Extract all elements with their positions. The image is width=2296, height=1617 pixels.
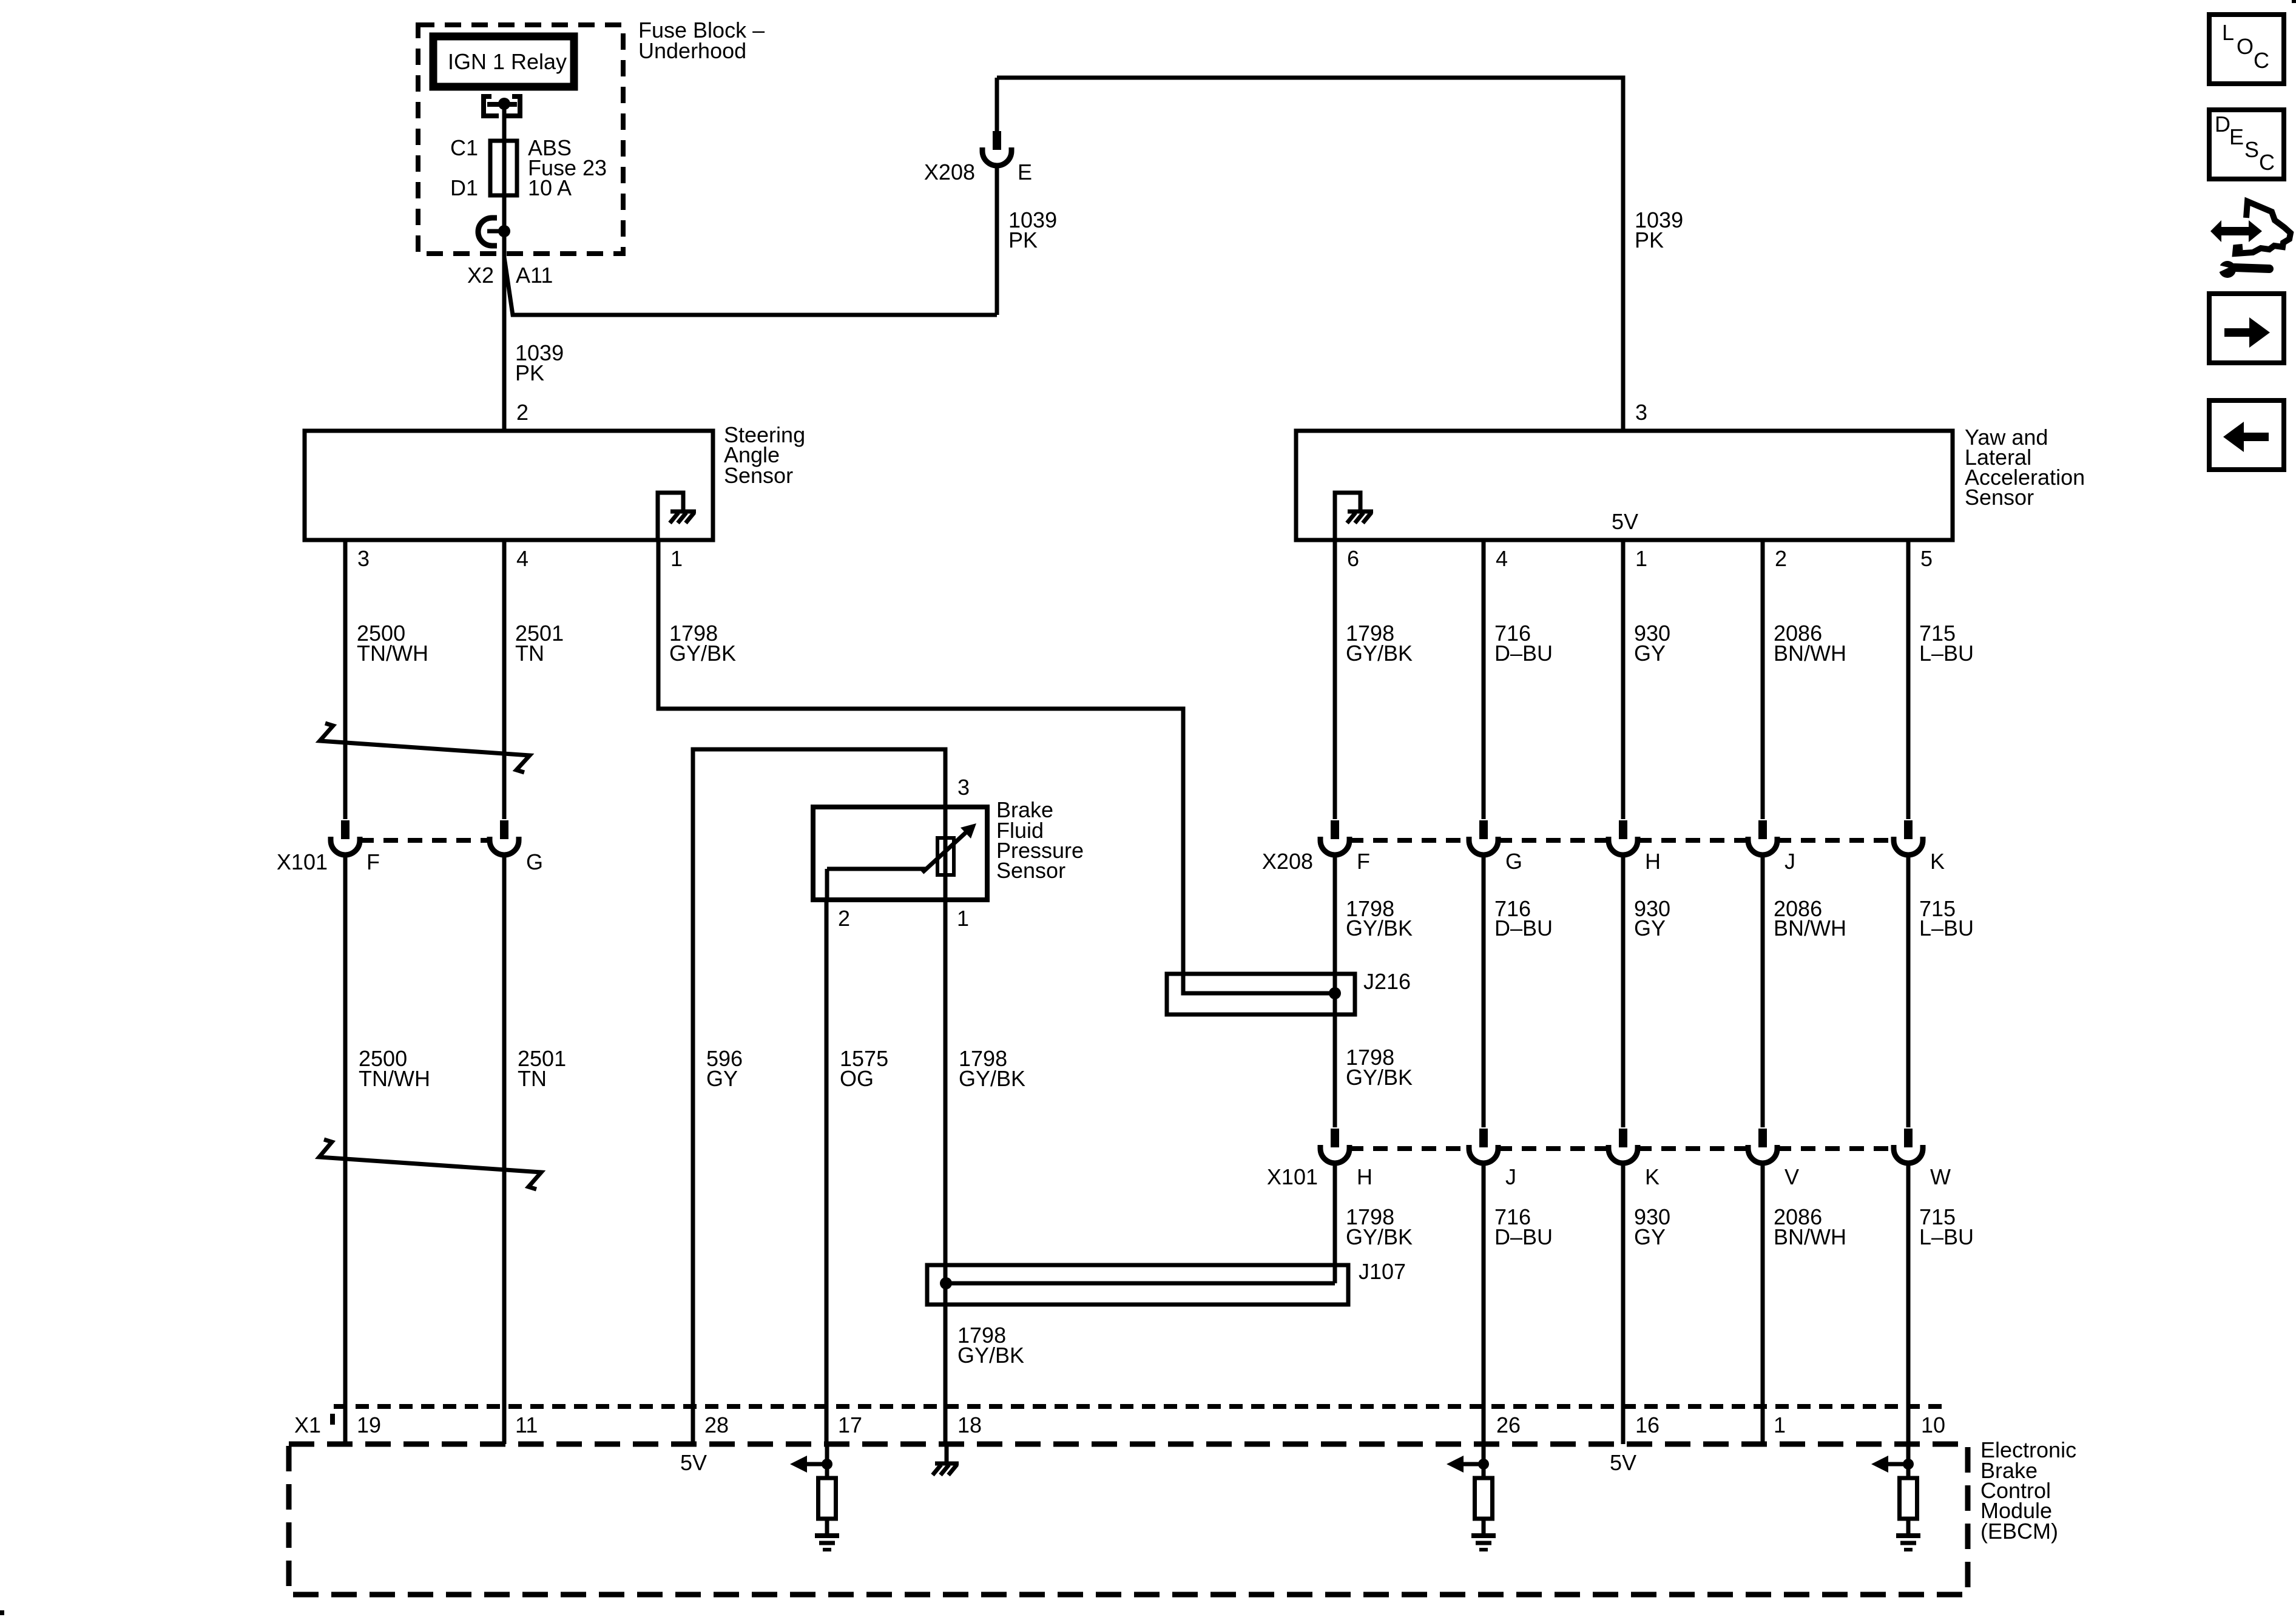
wire 2500 TN/WH steering pin 3 to X101 F <box>343 540 348 819</box>
svg-text:28: 28 <box>704 1413 729 1437</box>
svg-text:X101: X101 <box>277 849 328 874</box>
5V label inside yaw sensor <box>1612 509 1638 534</box>
connector X208 pin E <box>982 78 1011 315</box>
EBCM pin 28 label <box>704 1413 729 1437</box>
svg-text:F: F <box>1357 849 1370 874</box>
svg-text:J107: J107 <box>1359 1259 1406 1284</box>
EBCM pin 17 internal: arrow, pull resistor, ground <box>790 1444 839 1550</box>
break symbol crossing wires 2500/2501 lower <box>319 1139 541 1189</box>
fuse block label <box>638 18 765 63</box>
page mark bottom left <box>0 1610 4 1615</box>
svg-text:GY/BK: GY/BK <box>957 1343 1024 1368</box>
svg-text:5V: 5V <box>1612 509 1638 534</box>
svg-text:H: H <box>1645 849 1661 874</box>
svg-text:5V: 5V <box>1610 1450 1636 1475</box>
EBCM pin 26 label <box>1496 1413 1521 1437</box>
svg-text:GY: GY <box>706 1066 738 1091</box>
svg-text:D–BU: D–BU <box>1494 916 1553 940</box>
wire label 930 GY below X101 K <box>1634 1204 1670 1249</box>
X101 row2 dashed connector line <box>1349 1146 1894 1151</box>
svg-text:3: 3 <box>957 775 970 800</box>
svg-text:19: 19 <box>357 1413 381 1437</box>
svg-text:PK: PK <box>1635 228 1664 252</box>
svg-text:V: V <box>1784 1164 1799 1189</box>
splice J107 inner bus <box>946 1281 1335 1286</box>
variable arrow through transducer <box>922 823 976 873</box>
brake fluid pressure sensor label <box>996 797 1084 883</box>
wire: relay to fuse to steering pin 2 (1039 PK) <box>502 105 507 431</box>
EBCM pin 26 internal: arrow, pull resistor, ground <box>1447 1444 1496 1550</box>
wire 2086 BN/WH X101 V to EBCM pin 1 <box>1761 1163 1765 1444</box>
wire label 1798 GY/BK yaw <box>1346 621 1413 666</box>
svg-text:J: J <box>1784 849 1795 874</box>
svg-text:5V: 5V <box>680 1450 707 1475</box>
svg-text:X101: X101 <box>1267 1164 1318 1189</box>
connector X101 pin K <box>1609 1129 1638 1163</box>
X208 pin G label <box>1505 849 1522 874</box>
wire label 1798 GY/BK below X101 H <box>1346 1204 1413 1249</box>
pin A11 label <box>516 263 553 288</box>
svg-text:J: J <box>1505 1164 1516 1189</box>
connector X208 top name label <box>924 160 975 184</box>
svg-text:K: K <box>1930 849 1945 874</box>
EBCM pin 16 label <box>1635 1413 1660 1437</box>
wire label 2500 TN/WH lower <box>359 1046 430 1091</box>
svg-text:BN/WH: BN/WH <box>1774 641 1846 666</box>
yaw pin 6 label <box>1347 546 1359 571</box>
steering pin 1 label <box>670 546 683 571</box>
svg-text:10: 10 <box>1921 1413 1945 1437</box>
margin icon: DESC box <box>2209 110 2284 179</box>
brake sensor pin 2 label <box>838 906 850 931</box>
wire 1798 GY/BK brake pin 1 to J107 to EBCM pin 18 <box>944 900 948 1444</box>
wire 2086 BN/WH X208 J to X101 V <box>1761 854 1765 1127</box>
svg-text:GY/BK: GY/BK <box>1346 641 1413 666</box>
wire 596 GY EBCM pin 28 to brake sensor pin 3 <box>693 749 945 1444</box>
wire label 715 L-BU below X208 K <box>1919 896 1974 940</box>
X101 pin V label <box>1784 1164 1799 1189</box>
svg-text:2: 2 <box>838 906 850 931</box>
wire 715 L-BU X208 K to X101 W <box>1906 854 1911 1127</box>
svg-text:PK: PK <box>1008 228 1038 252</box>
EBCM label <box>1980 1437 2076 1544</box>
svg-text:4: 4 <box>1496 546 1508 571</box>
ground symbol inside yaw sensor <box>1335 493 1373 541</box>
wire label 1039 PK below X2 <box>515 340 564 385</box>
yaw pin 2 label <box>1775 546 1787 571</box>
svg-text:(EBCM): (EBCM) <box>1980 1519 2058 1544</box>
svg-text:5: 5 <box>1920 546 1933 571</box>
EBCM pin 17 label <box>838 1413 862 1437</box>
svg-text:X1: X1 <box>294 1413 321 1437</box>
svg-text:3: 3 <box>1635 400 1647 425</box>
wire label 2086 BN/WH below X101 V <box>1774 1204 1846 1249</box>
wire label 715 L-BU below X101 W <box>1919 1204 1974 1249</box>
page mark top right <box>2292 0 2296 3</box>
X208 pin K label <box>1930 849 1945 874</box>
X101 pin H label <box>1357 1164 1373 1189</box>
yaw sensor label <box>1965 425 2085 510</box>
connector X208 pin F <box>1320 820 1349 855</box>
EBCM pin 10 internal: arrow, pull resistor, ground <box>1871 1444 1920 1550</box>
connector X101 pin V <box>1748 1129 1777 1163</box>
margin icon: right arrow box <box>2209 294 2284 363</box>
5V label under pin 28 <box>680 1450 707 1475</box>
svg-text:TN/WH: TN/WH <box>359 1066 430 1091</box>
X208 pin J label <box>1784 849 1795 874</box>
wire 930 GY yaw pin 1 to X208 H <box>1621 540 1626 819</box>
wire 1575 OG brake pin 2 to EBCM pin 17 <box>825 900 829 1444</box>
svg-text:Underhood: Underhood <box>638 38 746 63</box>
wire label 2501 TN lower <box>518 1046 566 1091</box>
svg-text:C1: C1 <box>450 135 478 160</box>
connector X101 pin H <box>1320 1129 1349 1163</box>
svg-text:11: 11 <box>515 1413 538 1437</box>
fuse F23: ABS Fuse 23 10 A <box>490 141 517 195</box>
wire 930 GY X208 H to X101 K <box>1621 854 1626 1127</box>
5V label under pin 16 <box>1610 1450 1636 1475</box>
svg-text:IGN 1 Relay: IGN 1 Relay <box>448 49 567 74</box>
connector X101 pin F <box>331 820 360 855</box>
yaw pin 1 label <box>1635 546 1647 571</box>
svg-text:BN/WH: BN/WH <box>1774 916 1846 940</box>
svg-text:GY: GY <box>1634 1224 1666 1249</box>
steering pin 3 label <box>357 546 370 571</box>
svg-text:L–BU: L–BU <box>1919 1224 1974 1249</box>
wire label 1039 PK at X208 E <box>1008 208 1057 252</box>
connector X101 pin W <box>1894 1129 1923 1163</box>
wire label 716 D-BU yaw <box>1494 621 1553 666</box>
svg-text:C: C <box>2259 150 2275 175</box>
svg-text:OG: OG <box>840 1066 874 1091</box>
wiper line from pin 2 <box>827 869 927 900</box>
X208 pin F label <box>1357 849 1370 874</box>
steering angle sensor label <box>724 422 805 488</box>
svg-text:Sensor: Sensor <box>724 463 793 488</box>
svg-text:1: 1 <box>670 546 683 571</box>
connector X208 pin K <box>1894 820 1923 855</box>
wire label 1798 GY/BK steering <box>669 621 736 666</box>
svg-text:TN: TN <box>518 1066 547 1091</box>
svg-text:GY/BK: GY/BK <box>669 641 736 666</box>
svg-text:X208: X208 <box>1262 849 1313 874</box>
wire: top run X208 E to yaw pin 3 (1039 PK) <box>997 78 1623 431</box>
EBCM pin 18 label <box>957 1413 982 1437</box>
svg-text:1: 1 <box>1774 1413 1786 1437</box>
svg-text:F: F <box>366 849 380 874</box>
wire label 596 GY <box>706 1046 743 1091</box>
svg-text:TN/WH: TN/WH <box>357 641 428 666</box>
svg-text:X208: X208 <box>924 160 975 184</box>
wire 716 D-BU yaw pin 4 to X208 G <box>1482 540 1486 819</box>
X1 separator dash <box>330 1414 335 1425</box>
ground symbol inside steering sensor <box>658 493 696 541</box>
X101 F-G dashed connector line <box>359 838 490 843</box>
pin 3 label yaw <box>1635 400 1647 425</box>
wire label 2086 BN/WH yaw <box>1774 621 1846 666</box>
connector X1 dashed line <box>334 1404 1949 1409</box>
svg-text:G: G <box>1505 849 1522 874</box>
EBCM pin 10 label <box>1921 1413 1945 1437</box>
wire 930 GY X101 K to EBCM pin 16 <box>1621 1163 1626 1444</box>
wire 1798 GY/BK yaw pin 6 to X208 F <box>1333 540 1337 819</box>
fuse block - underhood dashed box <box>418 25 623 254</box>
pin 2 label steering <box>516 400 528 425</box>
svg-text:PK: PK <box>515 360 544 385</box>
svg-text:3: 3 <box>357 546 370 571</box>
EBCM pin 1 label <box>1774 1413 1786 1437</box>
X208 row dashed connector line <box>1349 838 1894 843</box>
wire label 715 L-BU yaw <box>1919 621 1974 666</box>
svg-text:K: K <box>1645 1164 1660 1189</box>
X101 pin F label <box>366 849 380 874</box>
relay K: IGN 1 Relay box <box>433 36 574 87</box>
X1 label <box>294 1413 321 1437</box>
wire 715 L-BU X101 W to EBCM pin 10 <box>1906 1163 1911 1444</box>
svg-text:1: 1 <box>1635 546 1647 571</box>
svg-text:GY: GY <box>1634 916 1666 940</box>
svg-text:E: E <box>2229 124 2244 149</box>
brake fluid pressure sensor box <box>813 807 987 900</box>
wire label 1798 GY/BK below J107 <box>957 1323 1024 1368</box>
svg-text:16: 16 <box>1635 1413 1660 1437</box>
splice J107 junction dot <box>940 1277 952 1289</box>
EBCM pin 18 internal: chassis ground <box>933 1444 959 1475</box>
wire 716 D-BU X208 G to X101 J <box>1482 854 1486 1127</box>
svg-text:O: O <box>2237 34 2254 59</box>
svg-text:10 A: 10 A <box>528 175 572 200</box>
wire 1798 GY/BK X101 H to J107 <box>1333 1163 1337 1283</box>
svg-text:H: H <box>1357 1164 1373 1189</box>
splice J216 box <box>1167 974 1355 1014</box>
steering angle sensor box <box>305 431 713 540</box>
svg-text:GY: GY <box>1634 641 1666 666</box>
yaw and lateral acceleration sensor box <box>1296 431 1953 540</box>
J107 label <box>1359 1259 1406 1284</box>
X101 pin K label <box>1645 1164 1660 1189</box>
connector X101 lower name label <box>1267 1164 1318 1189</box>
fuse block bottom terminal <box>478 218 510 246</box>
svg-text:J216: J216 <box>1363 969 1411 994</box>
wire 715 L-BU yaw pin 5 to X208 K <box>1906 540 1911 819</box>
connector X208 name label <box>1262 849 1313 874</box>
splice J107 box <box>927 1265 1348 1305</box>
wire 716 D-BU X101 J to EBCM pin 26 <box>1482 1163 1486 1444</box>
svg-text:17: 17 <box>838 1413 862 1437</box>
wire 2500 TN/WH X101 F to EBCM pin 19 <box>343 854 348 1444</box>
svg-text:L–BU: L–BU <box>1919 641 1974 666</box>
svg-text:E: E <box>1018 160 1032 184</box>
connector X2 label <box>467 263 494 288</box>
svg-text:D–BU: D–BU <box>1494 1224 1553 1249</box>
svg-text:W: W <box>1930 1164 1951 1189</box>
wire label 716 D-BU below X101 J <box>1494 1204 1553 1249</box>
connector X101 pin J <box>1469 1129 1498 1163</box>
svg-text:6: 6 <box>1347 546 1359 571</box>
wire label 2501 TN upper <box>515 621 564 666</box>
transducer element rect inside sensor <box>937 838 954 875</box>
svg-text:GY/BK: GY/BK <box>959 1066 1025 1091</box>
wire through sensor pin 3 to pin 1 <box>944 807 948 900</box>
connector X208 pin G <box>1469 820 1498 855</box>
wire label 930 GY yaw <box>1634 621 1670 666</box>
svg-text:GY/BK: GY/BK <box>1346 1065 1413 1090</box>
svg-text:GY/BK: GY/BK <box>1346 916 1413 940</box>
svg-text:1: 1 <box>957 906 969 931</box>
X208 pin E label <box>1018 160 1032 184</box>
wire 1798 GY/BK steering pin 1 to J216 <box>658 540 1335 993</box>
svg-text:C: C <box>2254 48 2269 73</box>
wire 2086 BN/WH yaw pin 2 to X208 J <box>1761 540 1765 819</box>
fuse pin D1 label <box>450 175 478 200</box>
X208 pin H label <box>1645 849 1661 874</box>
wire 2501 TN steering pin 4 to X101 G <box>502 540 507 819</box>
X101 pin J label <box>1505 1164 1516 1189</box>
steering pin 4 label <box>516 546 528 571</box>
pin 3 label brake sensor <box>957 775 970 800</box>
wire label 1575 OG <box>840 1046 888 1091</box>
X101 pin W label <box>1930 1164 1951 1189</box>
svg-text:TN: TN <box>515 641 544 666</box>
yaw pin 4 label <box>1496 546 1508 571</box>
relay contact terminals <box>484 96 520 116</box>
svg-text:4: 4 <box>516 546 528 571</box>
brake sensor pin 1 label <box>957 906 969 931</box>
svg-text:S: S <box>2244 137 2259 162</box>
fuse value label ABS Fuse 23 10 A <box>528 135 607 200</box>
wire: branch from X2/A11 to X208 E (1039 PK) <box>504 257 997 315</box>
svg-text:2: 2 <box>1775 546 1787 571</box>
wire label 2500 TN/WH upper <box>357 621 428 666</box>
wire label 1039 PK right <box>1635 208 1683 252</box>
svg-text:L: L <box>2222 20 2234 45</box>
svg-text:BN/WH: BN/WH <box>1774 1224 1846 1249</box>
wire label 930 GY below X208 H <box>1634 896 1670 940</box>
svg-text:L–BU: L–BU <box>1919 916 1974 940</box>
svg-text:D: D <box>2215 112 2230 137</box>
wire label 716 D-BU below X208 G <box>1494 896 1553 940</box>
wire label 1798 GY/BK brake pin 1 <box>959 1046 1025 1091</box>
break symbol crossing wires 2500/2501 upper <box>320 723 530 772</box>
svg-text:G: G <box>526 849 543 874</box>
splice J216 junction dot <box>1329 987 1341 999</box>
svg-text:D1: D1 <box>450 175 478 200</box>
X101 pin G label <box>526 849 543 874</box>
fuse pin C1 label <box>450 135 478 160</box>
wire 2501 TN X101 G to EBCM pin 11 <box>502 854 507 1444</box>
wire label 2086 BN/WH below X208 J <box>1774 896 1846 940</box>
connector X208 pin J <box>1748 820 1777 855</box>
margin icon: left arrow box <box>2209 400 2284 470</box>
svg-text:18: 18 <box>957 1413 982 1437</box>
connector X101 pin G <box>490 820 519 855</box>
yaw pin 5 label <box>1920 546 1933 571</box>
J216 label <box>1363 969 1411 994</box>
EBCM dashed box <box>289 1444 1968 1595</box>
EBCM pin 19 label <box>357 1413 381 1437</box>
svg-text:D–BU: D–BU <box>1494 641 1553 666</box>
connector X208 pin H <box>1609 820 1638 855</box>
svg-text:Sensor: Sensor <box>1965 485 2034 510</box>
wire label 1798 GY/BK below X208 F <box>1346 896 1413 940</box>
svg-text:2: 2 <box>516 400 528 425</box>
connector X101 name label <box>277 849 328 874</box>
svg-text:A11: A11 <box>516 263 553 288</box>
wire label 1798 GY/BK below J216 <box>1346 1045 1413 1090</box>
EBCM pin 11 label <box>515 1413 538 1437</box>
svg-text:26: 26 <box>1496 1413 1521 1437</box>
svg-text:Sensor: Sensor <box>996 858 1065 883</box>
svg-text:X2: X2 <box>467 263 494 288</box>
wire 1798 GY/BK X208 F to X101 H <box>1333 854 1337 1127</box>
svg-text:GY/BK: GY/BK <box>1346 1224 1413 1249</box>
margin icon: hand with double arrow and wrench <box>2210 201 2291 278</box>
margin icon: LOC box <box>2209 15 2284 84</box>
